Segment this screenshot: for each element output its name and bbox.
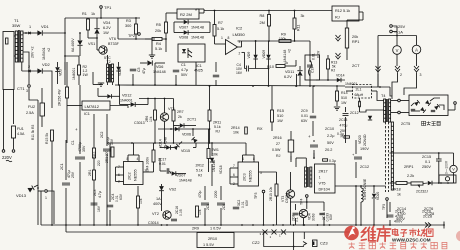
wire xyxy=(93,114,95,148)
wire xyxy=(64,62,66,70)
svg-text:2C15: 2C15 xyxy=(422,155,431,159)
svg-text:20k: 20k xyxy=(352,35,358,39)
svg-text:VD4: VD4 xyxy=(103,21,110,25)
watermark char wei xyxy=(361,226,375,241)
svg-text:VD2: VD2 xyxy=(42,62,51,67)
svg-text:2R9: 2R9 xyxy=(192,227,199,231)
wire xyxy=(271,86,273,110)
watermark char ku xyxy=(377,226,390,241)
svg-text:T4: T4 xyxy=(381,94,385,98)
wire xyxy=(96,18,98,28)
svg-text:190V: 190V xyxy=(360,147,369,151)
svg-text:400V: 400V xyxy=(153,202,162,206)
svg-text:R15 5k: R15 5k xyxy=(45,133,49,144)
svg-text:100k: 100k xyxy=(279,37,287,41)
svg-text:1N4001: 1N4001 xyxy=(72,68,76,80)
transformer T3 secondary xyxy=(310,167,312,187)
svg-text:VD14: VD14 xyxy=(159,139,163,148)
svg-text:2: 2 xyxy=(400,73,402,77)
wire xyxy=(290,131,292,140)
svg-text:RJ: RJ xyxy=(198,174,203,178)
optocoupler IC1 4N25 xyxy=(178,44,205,62)
wire xyxy=(453,173,455,183)
watermark slogan xyxy=(349,242,355,248)
box R2 xyxy=(177,9,199,19)
capacitor 2C5 xyxy=(201,203,209,205)
bus end bar xyxy=(443,222,445,229)
svg-text:1: 1 xyxy=(279,234,281,238)
svg-text:1N4001: 1N4001 xyxy=(120,99,133,103)
capacitor 2C12 xyxy=(359,101,361,107)
svg-text:+: + xyxy=(308,134,311,139)
wire xyxy=(174,21,184,23)
svg-text:2C12: 2C12 xyxy=(350,111,359,115)
svg-text:2200: 2200 xyxy=(214,190,218,198)
svg-text:1: 1 xyxy=(319,176,321,180)
wire xyxy=(336,86,338,91)
svg-text:35V: 35V xyxy=(82,145,86,152)
svg-text:2C2: 2C2 xyxy=(100,132,104,138)
node xyxy=(268,40,270,42)
output terminal - xyxy=(390,30,393,33)
svg-text:510: 510 xyxy=(341,96,347,100)
svg-text:10k: 10k xyxy=(198,209,202,215)
svg-text:2CT6: 2CT6 xyxy=(424,207,433,211)
svg-text:1: 1 xyxy=(45,196,47,200)
svg-text:R4: R4 xyxy=(156,42,161,46)
svg-text:220: 220 xyxy=(97,160,101,166)
wire xyxy=(135,18,137,24)
svg-text:63V: 63V xyxy=(301,119,308,123)
wire xyxy=(195,62,197,85)
svg-text:2R3 220: 2R3 220 xyxy=(105,150,109,163)
svg-text:0.5W: 0.5W xyxy=(272,148,281,152)
svg-text:20k: 20k xyxy=(155,29,161,33)
svg-text:RJ: RJ xyxy=(335,16,340,20)
svg-text:C13: C13 xyxy=(311,67,315,73)
wire xyxy=(155,62,165,64)
vertical from VD1 xyxy=(64,18,66,85)
wire xyxy=(65,140,67,180)
svg-text:68μH: 68μH xyxy=(355,93,364,97)
wire xyxy=(100,9,102,19)
svg-text:—25V: —25V xyxy=(394,24,405,29)
svg-text:50V: 50V xyxy=(181,73,188,77)
wire pot row xyxy=(390,182,397,184)
svg-text:VD14: VD14 xyxy=(336,74,345,78)
wire xyxy=(392,31,397,33)
svg-text:RJ: RJ xyxy=(276,154,281,158)
diode VD5 xyxy=(107,94,111,98)
wire xyxy=(438,153,440,159)
wire xyxy=(154,120,156,143)
wire xyxy=(119,85,121,105)
svg-text:27: 27 xyxy=(276,142,280,146)
svg-text:R5: R5 xyxy=(156,23,161,27)
svg-text:VT6: VT6 xyxy=(109,37,116,41)
svg-text:3k: 3k xyxy=(301,14,305,18)
wire xyxy=(389,202,391,212)
wire xyxy=(359,11,363,13)
wire xyxy=(346,20,348,28)
wire xyxy=(118,38,155,40)
svg-text:2W1: 2W1 xyxy=(212,148,219,152)
test point TP1 xyxy=(100,6,103,9)
junction X1 xyxy=(263,230,268,235)
svg-text:5.1k: 5.1k xyxy=(196,169,203,173)
wire xyxy=(174,32,184,34)
connector chevron xyxy=(376,66,381,72)
svg-text:R7: R7 xyxy=(218,21,223,25)
voltmeter 2 xyxy=(450,165,457,172)
svg-text:2R16: 2R16 xyxy=(273,136,282,140)
main bottom bus xyxy=(41,224,444,226)
svg-text:6.2V: 6.2V xyxy=(103,26,111,30)
svg-text:C3013: C3013 xyxy=(134,121,145,125)
wire xyxy=(355,140,357,154)
wire xyxy=(43,71,52,86)
transformer T5 shield xyxy=(385,122,387,192)
watermark char dian xyxy=(392,228,398,235)
relay box xyxy=(305,55,320,80)
diode 2CT1 xyxy=(180,123,184,127)
svg-text:1: 1 xyxy=(270,235,272,239)
wire xyxy=(23,32,38,34)
svg-text:0.3μ: 0.3μ xyxy=(329,159,336,163)
svg-text:2C6: 2C6 xyxy=(222,204,226,210)
wire xyxy=(106,114,108,146)
wire xyxy=(34,185,38,187)
ground xyxy=(149,55,155,58)
svg-text:2R4 100k: 2R4 100k xyxy=(146,157,150,172)
bridge wires xyxy=(411,103,414,106)
svg-text:VD15: VD15 xyxy=(181,149,190,153)
op-amp IC2 xyxy=(226,40,238,55)
box R12 xyxy=(332,6,359,21)
svg-text:2.2μ: 2.2μ xyxy=(327,134,334,138)
svg-text:7: 7 xyxy=(233,164,235,168)
wire xyxy=(242,155,244,162)
connector chevron 2 xyxy=(395,66,400,72)
svg-text:470μ: 470μ xyxy=(340,124,348,128)
connector chevron 1 xyxy=(336,35,341,41)
output post xyxy=(454,102,457,105)
svg-text:1k: 1k xyxy=(397,193,401,197)
svg-text:C3014: C3014 xyxy=(148,221,159,225)
svg-text:×2: ×2 xyxy=(288,49,292,53)
wire xyxy=(204,186,206,200)
svg-text:2C13: 2C13 xyxy=(339,118,347,122)
svg-text:1N4148: 1N4148 xyxy=(191,26,204,30)
potentiometer RP1 xyxy=(345,28,348,48)
svg-text:RJ: RJ xyxy=(331,69,335,73)
svg-text:A: A xyxy=(415,47,418,52)
svg-text:1k: 1k xyxy=(91,12,95,16)
svg-text:3: 3 xyxy=(26,89,28,93)
capacitor 2C6 xyxy=(217,203,225,205)
wire xyxy=(162,38,166,40)
node xyxy=(118,84,120,86)
bridge terminal a xyxy=(398,99,401,102)
ammeter A xyxy=(412,45,421,54)
wire xyxy=(203,9,205,11)
svg-text:VD07: VD07 xyxy=(179,26,188,30)
svg-text:5.1k: 5.1k xyxy=(214,125,221,129)
svg-text:2R7: 2R7 xyxy=(177,110,184,114)
svg-text:VD07: VD07 xyxy=(176,174,186,178)
wire xyxy=(238,46,242,48)
svg-text:2R17: 2R17 xyxy=(319,170,328,174)
svg-text:63V: 63V xyxy=(119,193,123,200)
svg-text:2.5A: 2.5A xyxy=(26,111,34,115)
svg-text:TP3: TP3 xyxy=(254,193,258,199)
wire xyxy=(306,197,308,202)
resistor 2R8 xyxy=(196,206,199,217)
node xyxy=(64,32,66,34)
svg-text:VD06: VD06 xyxy=(182,133,191,137)
svg-text:1k: 1k xyxy=(284,61,288,65)
wire xyxy=(309,41,311,62)
svg-text:16V: 16V xyxy=(236,71,243,75)
svg-text:2C10: 2C10 xyxy=(325,127,334,131)
resistor 2R5 xyxy=(137,196,140,208)
svg-text:0.01: 0.01 xyxy=(312,53,316,60)
wire xyxy=(14,55,15,57)
wire y186 xyxy=(335,185,386,187)
wire xyxy=(13,90,15,125)
bridge terminal b xyxy=(398,111,401,114)
mid bus xyxy=(115,85,345,86)
wire xyxy=(117,18,119,39)
svg-text:R3: R3 xyxy=(126,19,131,23)
svg-text:4: 4 xyxy=(137,157,139,161)
second bus xyxy=(66,231,350,233)
svg-text:LM7812: LM7812 xyxy=(85,104,100,109)
svg-text:10k: 10k xyxy=(149,116,153,122)
svg-text:2C5: 2C5 xyxy=(206,204,210,210)
svg-text:2L1: 2L1 xyxy=(356,88,362,92)
resistor 2R18 xyxy=(396,182,407,185)
wire xyxy=(43,32,65,34)
terminal N xyxy=(12,150,15,153)
wire top right xyxy=(390,152,454,154)
svg-text:VD08: VD08 xyxy=(179,36,188,40)
svg-text:47μ: 47μ xyxy=(142,68,146,74)
output terminal + xyxy=(390,25,393,28)
svg-text:220V: 220V xyxy=(2,155,12,160)
wire xyxy=(327,55,329,59)
transformer T5 secondary xyxy=(391,122,393,190)
mains plug box xyxy=(3,32,14,90)
connector chevron 3 xyxy=(414,66,419,72)
svg-text:VT5: VT5 xyxy=(319,182,326,186)
svg-text:1W: 1W xyxy=(103,31,109,35)
wire xyxy=(192,129,194,136)
wire xyxy=(65,56,79,58)
svg-text:16V: 16V xyxy=(97,205,101,212)
fuse FU1 xyxy=(12,126,16,138)
svg-text:10k: 10k xyxy=(212,153,218,157)
svg-text:3063: 3063 xyxy=(312,213,316,221)
svg-text:2CZ32J: 2CZ32J xyxy=(416,190,428,194)
svg-text:5.1k: 5.1k xyxy=(155,47,162,51)
wire xyxy=(396,54,398,66)
wire xyxy=(390,87,392,99)
base line xyxy=(139,98,174,100)
svg-text:VD13: VD13 xyxy=(16,193,27,198)
wire xyxy=(293,232,295,250)
svg-text:TP1: TP1 xyxy=(104,5,112,10)
transformer T1 secondary xyxy=(21,31,23,62)
wire xyxy=(96,44,98,50)
diode VD7 xyxy=(184,20,188,25)
IC 2IC2 NE555 xyxy=(124,162,144,185)
wire meter bus xyxy=(378,35,417,37)
wire xyxy=(396,36,398,46)
wire row1 xyxy=(158,128,210,130)
wire xyxy=(313,140,315,142)
wire xyxy=(345,107,347,112)
svg-text:VD3: VD3 xyxy=(59,69,63,76)
label rectifier xyxy=(422,121,426,125)
svg-text:R2 2M: R2 2M xyxy=(180,12,192,17)
svg-text:VD1: VD1 xyxy=(41,24,50,29)
wire xyxy=(79,33,81,40)
svg-text:C1: C1 xyxy=(71,140,75,145)
capacitor 2C12b xyxy=(354,157,362,159)
wire xyxy=(93,84,101,86)
transformer T1 primary xyxy=(15,31,17,62)
node xyxy=(135,38,137,40)
box DF104 xyxy=(315,164,336,193)
svg-text:2.2k: 2.2k xyxy=(407,174,414,178)
svg-text:2: 2 xyxy=(239,52,241,56)
watermark logo xyxy=(344,226,359,241)
wire xyxy=(88,37,97,39)
wire xyxy=(165,13,167,22)
connector chevron 2 xyxy=(336,53,341,59)
watermark edge blob xyxy=(456,231,460,242)
wire xyxy=(166,12,177,14)
svg-text:VD09: VD09 xyxy=(262,50,266,59)
svg-text:1N5401: 1N5401 xyxy=(42,47,46,60)
watermark char zi xyxy=(400,230,407,237)
svg-text:1W: 1W xyxy=(277,119,283,123)
IC3 LM7812 xyxy=(82,101,110,110)
svg-text:IC2: IC2 xyxy=(236,26,243,31)
bridge diode 2 xyxy=(425,100,431,106)
terminal L xyxy=(2,150,5,153)
svg-text:CZ2: CZ2 xyxy=(252,240,260,245)
svg-text:2CT1: 2CT1 xyxy=(187,118,196,122)
svg-text:FU2: FU2 xyxy=(28,105,35,109)
watermark char chang xyxy=(417,229,425,237)
svg-text:4N25: 4N25 xyxy=(194,69,203,73)
svg-text:R8: R8 xyxy=(260,14,265,18)
wire xyxy=(40,191,42,225)
svg-text:400V: 400V xyxy=(396,217,405,221)
svg-text:35W: 35W xyxy=(12,23,20,28)
wire xyxy=(355,186,357,225)
svg-text:+: + xyxy=(352,152,355,157)
svg-text:R14: R14 xyxy=(341,91,348,95)
svg-text:2C14: 2C14 xyxy=(397,207,406,211)
svg-text:2C12: 2C12 xyxy=(360,165,369,169)
junction X2 xyxy=(272,230,277,235)
svg-text:2R18: 2R18 xyxy=(392,188,401,192)
svg-text:50V: 50V xyxy=(327,141,334,145)
svg-text:2CN4D: 2CN4D xyxy=(363,134,367,146)
wire xyxy=(214,11,216,25)
wire xyxy=(79,85,81,154)
wire xyxy=(230,167,238,169)
wire xyxy=(209,86,211,110)
svg-text:2CZ8: 2CZ8 xyxy=(425,212,434,216)
svg-text:2R14: 2R14 xyxy=(231,126,240,130)
svg-text:×2: ×2 xyxy=(47,48,51,52)
svg-text:1W: 1W xyxy=(83,73,89,77)
wire xyxy=(211,143,213,156)
transformer T1 core xyxy=(18,30,20,63)
svg-text:0.1: 0.1 xyxy=(425,160,430,164)
voltmeter V xyxy=(393,46,402,55)
transformer T2 xyxy=(107,64,109,82)
svg-text:VD23: VD23 xyxy=(358,135,362,144)
transformer T3 primary xyxy=(305,167,307,187)
bridge diode 1 xyxy=(414,100,420,106)
diode VD14 xyxy=(175,127,179,131)
svg-text:NE555: NE555 xyxy=(249,170,253,182)
svg-text:0.05: 0.05 xyxy=(179,209,183,216)
svg-text:LM350: LM350 xyxy=(233,32,246,37)
bus arrow xyxy=(425,223,431,228)
svg-text:2IC3: 2IC3 xyxy=(243,173,247,181)
svg-text:8: 8 xyxy=(228,36,230,40)
svg-text:1N4148: 1N4148 xyxy=(191,36,204,40)
svg-text:0.01: 0.01 xyxy=(301,114,308,118)
wire xyxy=(263,193,265,225)
svg-text:1N4001: 1N4001 xyxy=(345,82,357,86)
wire xyxy=(21,63,23,72)
svg-text:CT1: CT1 xyxy=(17,86,25,91)
svg-text:4.5A: 4.5A xyxy=(17,132,25,136)
svg-text:1: 1 xyxy=(29,25,31,29)
svg-text:2CT: 2CT xyxy=(352,63,360,68)
wire xyxy=(242,51,245,53)
svg-text:10k: 10k xyxy=(139,198,143,204)
svg-text:6.2V: 6.2V xyxy=(284,75,292,79)
svg-text:1: 1 xyxy=(221,36,223,40)
vertical wire xyxy=(51,141,53,225)
horizontal wire y41 xyxy=(238,40,311,42)
wire xyxy=(208,129,210,149)
svg-text:1 0.5V: 1 0.5V xyxy=(210,227,221,231)
svg-text:TP5: TP5 xyxy=(382,204,386,210)
horizontal y143 xyxy=(107,142,246,144)
wire xyxy=(14,35,15,37)
svg-text:R10: R10 xyxy=(267,65,274,69)
ground xyxy=(98,83,104,86)
svg-text:VD6: VD6 xyxy=(156,65,163,69)
resistor R13 xyxy=(327,59,330,69)
svg-text:2R11: 2R11 xyxy=(213,121,221,125)
wire xyxy=(164,99,166,113)
box 2R10 xyxy=(197,233,234,248)
svg-text:250V: 250V xyxy=(422,165,431,169)
wire xyxy=(13,138,15,149)
svg-text:BT33F: BT33F xyxy=(108,42,120,46)
svg-text:2k: 2k xyxy=(178,115,182,119)
